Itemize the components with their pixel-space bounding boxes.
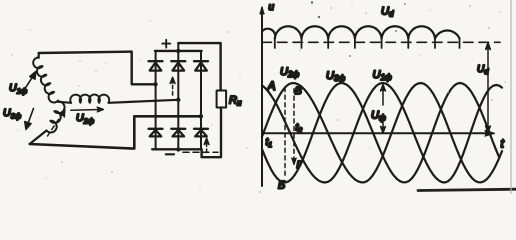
arrow U3f [25, 108, 34, 129]
winding U2f coil [58, 102, 71, 103]
t axis arrowhead [485, 131, 495, 137]
wire phase 2 to bridge [109, 100, 179, 103]
sinusoid U1f curve [262, 83, 502, 183]
bridge leg 2 [177, 43, 179, 149]
wire minus to load [202, 108, 221, 158]
plus label [162, 40, 170, 48]
dashed average line [262, 41, 500, 43]
scallop junction ticks [275, 38, 460, 48]
svg-text:U2ф: U2ф [76, 112, 95, 125]
arrow dashed winding 3 [48, 110, 65, 136]
svg-text:u: u [269, 2, 275, 13]
svg-text:U3ф: U3ф [326, 70, 345, 83]
svg-text:t1: t1 [266, 137, 273, 149]
node dots [153, 49, 203, 152]
sinusoid U2f curve [262, 83, 502, 182]
svg-text:Uф: Uф [371, 110, 386, 123]
bottom right scan line [418, 189, 516, 190]
svg-text:U1ф: U1ф [9, 82, 28, 95]
svg-text:U1ф: U1ф [373, 69, 392, 82]
svg-text:Ud: Ud [381, 6, 394, 19]
right edge scan line [510, 0, 512, 194]
diode VD6 [194, 129, 208, 137]
wire bottom phase 3 [30, 116, 201, 148]
svg-text:t: t [501, 137, 505, 151]
bridge leg 3 [200, 51, 202, 149]
winding U1f coil [33, 57, 58, 102]
wire top phase 1 [39, 52, 156, 85]
minus label [166, 153, 174, 155]
diode VD3 [194, 61, 208, 70]
dashed current path [183, 151, 218, 153]
svg-text:U3ф: U3ф [3, 107, 22, 120]
wire plus to load [178, 43, 220, 90]
v axis [261, 8, 263, 186]
scan speckles [11, 1, 506, 193]
svg-text:Rн: Rн [229, 95, 242, 108]
arrow U1f [22, 72, 36, 94]
dashed drop line 1 [284, 88, 286, 178]
dashed drop line 2 [293, 89, 295, 162]
resistor Rn [217, 91, 227, 108]
svg-text:Б: Б [278, 180, 285, 192]
bridge leg 1 [155, 51, 157, 149]
winding U3f coil [47, 101, 65, 132]
arrow U2f [71, 107, 104, 112]
diode VD4 [149, 129, 163, 137]
bottom bus [152, 148, 201, 150]
t axis [262, 132, 492, 134]
top bus [155, 50, 202, 52]
sinusoid U3f curve [262, 83, 499, 182]
v axis arrowhead [260, 7, 264, 14]
wire coil1 top stub [38, 53, 40, 58]
Ud dimension arrow right [486, 43, 491, 133]
svg-text:A: A [267, 79, 276, 93]
diode VD1 [149, 61, 163, 70]
diode VD2 [171, 61, 185, 70]
svg-text:t2: t2 [296, 123, 303, 135]
dashed current arrow upper [170, 77, 175, 95]
wire coil3 tail to corner [30, 131, 47, 145]
Ud ripple scallops [262, 26, 460, 38]
dashed current arrow lower [204, 138, 209, 152]
svg-text:U2ф: U2ф [280, 66, 299, 79]
svg-text:В: В [295, 85, 302, 97]
Uf dimension arrow [381, 85, 386, 134]
diode VD5 [171, 129, 185, 137]
